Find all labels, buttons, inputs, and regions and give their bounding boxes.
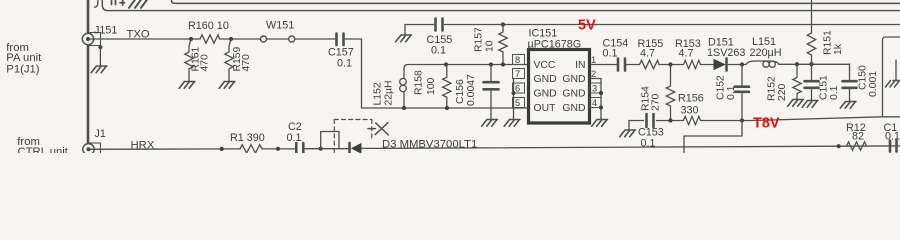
svg-text:8: 8 <box>515 55 520 65</box>
svg-text:220µH: 220µH <box>750 47 782 59</box>
svg-text:0.1: 0.1 <box>337 58 352 70</box>
svg-text:GND: GND <box>562 74 585 85</box>
ground R159 <box>219 82 235 89</box>
PA unit border line <box>87 0 90 144</box>
resistor R154 <box>666 65 674 121</box>
svg-text:10: 10 <box>485 40 496 52</box>
svg-text:P1(J1): P1(J1) <box>6 64 40 76</box>
capacitor C150 <box>849 64 851 101</box>
pin box 4 <box>590 98 602 108</box>
svg-text:IN: IN <box>575 60 585 71</box>
svg-text:C156: C156 <box>455 79 466 104</box>
mark X (not fitted) <box>368 123 388 135</box>
rail A (top horizontal line with corner stub) <box>172 0 900 3</box>
svg-text:0.1: 0.1 <box>726 85 737 100</box>
wire <box>626 64 639 66</box>
ground (partial, top-left) <box>129 0 148 8</box>
connector J1 <box>88 143 101 156</box>
svg-text:T8V: T8V <box>753 116 780 132</box>
capacitor C2 <box>296 143 303 153</box>
GND tie pins 7,6 <box>513 79 515 120</box>
resistor R158 <box>443 65 451 109</box>
wire <box>220 38 261 40</box>
resistor R159 <box>225 39 233 82</box>
svg-text:R151: R151 <box>823 30 834 55</box>
ground R152 <box>788 100 804 107</box>
resistor R160 <box>200 35 220 43</box>
capacitor C157 <box>337 34 344 46</box>
pin 2 wire <box>590 78 602 80</box>
svg-text:4: 4 <box>592 98 597 108</box>
svg-text:4.7: 4.7 <box>679 48 694 60</box>
svg-text:6: 6 <box>515 83 520 93</box>
capacitor C153 <box>647 114 654 127</box>
svg-text:7: 7 <box>515 69 520 79</box>
capacitor C156 <box>490 65 492 120</box>
svg-text:PA unit: PA unit <box>6 52 42 64</box>
pin box 3 <box>590 83 602 93</box>
svg-text:1: 1 <box>591 55 596 65</box>
resistor R157 <box>499 25 507 65</box>
VCC line to pin 8 <box>404 65 529 69</box>
resistor R153 <box>684 60 701 68</box>
svg-text:0.1: 0.1 <box>641 138 656 150</box>
svg-text:470: 470 <box>241 54 252 72</box>
node dot R157 top <box>501 22 505 26</box>
svg-text:GND: GND <box>562 103 585 114</box>
svg-text:R158: R158 <box>414 70 425 95</box>
OUT line (pin 5) <box>362 107 529 109</box>
svg-text:0.001: 0.001 <box>868 71 879 97</box>
5V line with ground at left <box>405 25 900 36</box>
wire <box>305 148 349 150</box>
svg-text:82: 82 <box>852 131 864 143</box>
svg-text:VCC: VCC <box>534 60 556 71</box>
svg-text:C151: C151 <box>819 75 830 100</box>
svg-text:HRX: HRX <box>131 140 155 152</box>
svg-text:3: 3 <box>592 83 597 93</box>
svg-text:0.1: 0.1 <box>287 132 302 144</box>
wire to right edge <box>362 146 900 149</box>
wire <box>701 64 714 66</box>
node dot 2 <box>229 37 233 41</box>
svg-text:D3 MMBV3700LT1: D3 MMBV3700LT1 <box>382 139 477 151</box>
svg-text:0.0047: 0.0047 <box>466 74 477 106</box>
ground J151 shell <box>98 45 102 49</box>
ground C150 <box>840 102 856 109</box>
svg-text:5V: 5V <box>578 18 596 34</box>
capacitor C155 <box>436 19 443 31</box>
svg-text:0.1: 0.1 <box>885 131 900 143</box>
svg-text:2: 2 <box>591 69 596 79</box>
svg-text:J151: J151 <box>94 25 117 37</box>
svg-text:22µH: 22µH <box>384 80 395 105</box>
jumper W151 <box>261 36 267 42</box>
svg-text:4.7: 4.7 <box>640 48 655 60</box>
svg-text:GND: GND <box>534 89 557 100</box>
svg-text:W151: W151 <box>266 20 294 32</box>
svg-text:0.1: 0.1 <box>603 48 618 60</box>
pin 1 wire <box>590 64 618 66</box>
svg-text:1k: 1k <box>833 43 844 55</box>
T8V line with ground at left <box>629 117 883 130</box>
wire T8V feed step <box>684 121 742 154</box>
svg-text:L152: L152 <box>373 82 384 105</box>
svg-text:GND: GND <box>562 89 585 100</box>
node dot 1 <box>189 37 193 41</box>
svg-text:R1 390: R1 390 <box>230 132 265 144</box>
ground C156 <box>482 120 498 127</box>
svg-text:CTRL unit: CTRL unit <box>18 146 69 153</box>
svg-text:C152: C152 <box>716 75 727 100</box>
svg-text:220: 220 <box>777 83 788 101</box>
block box right <box>883 37 900 117</box>
resistor R161 <box>185 39 193 82</box>
svg-text:TXO: TXO <box>127 29 150 41</box>
connector J151 <box>88 33 101 46</box>
capacitor C154 <box>618 59 625 71</box>
svg-text:R156: R156 <box>678 93 704 105</box>
wire <box>262 148 295 150</box>
inductor L152 <box>403 69 405 109</box>
pin box 7 <box>513 69 525 79</box>
ground C151 <box>802 101 818 108</box>
wire HRX <box>89 148 241 150</box>
diode D3 (varactor) <box>351 143 362 154</box>
wire hop <box>321 132 339 149</box>
svg-text:OUT: OUT <box>534 103 557 114</box>
svg-text:0.1: 0.1 <box>431 45 446 57</box>
capacitor C1 <box>890 141 897 152</box>
resistor R152 <box>793 64 801 99</box>
ground in block <box>895 60 897 80</box>
wire <box>779 63 850 65</box>
op-amp U1 IC151 body <box>529 50 590 124</box>
svg-text:R160 10: R160 10 <box>188 20 229 32</box>
pin box 8 <box>513 55 525 65</box>
svg-text:470: 470 <box>200 54 211 72</box>
pin box 5 <box>513 98 525 108</box>
wire TXO <box>88 38 200 40</box>
resistor R155 <box>640 60 660 68</box>
svg-text:270: 270 <box>651 93 662 111</box>
svg-text:C150: C150 <box>858 65 869 90</box>
wire <box>659 64 684 66</box>
resistor R156 <box>684 116 701 124</box>
diode D151 <box>714 59 726 71</box>
resistor R151 <box>807 0 815 64</box>
svg-text:1SV263: 1SV263 <box>707 47 745 59</box>
svg-text:J1: J1 <box>95 128 106 140</box>
resistor R1 <box>240 145 262 153</box>
wire <box>295 38 335 40</box>
cut-off component remnants top-left <box>95 0 98 7</box>
svg-text:100: 100 <box>426 77 437 95</box>
capacitor C151 <box>811 64 813 100</box>
rail B (second horizontal line, rounded corner at left) <box>102 0 900 11</box>
svg-text:R152: R152 <box>767 76 778 101</box>
pin box 6 <box>513 83 525 93</box>
svg-text:0.1: 0.1 <box>829 85 840 100</box>
resistor R12 <box>847 142 867 150</box>
dashed box D3 <box>334 120 372 154</box>
svg-text:GND: GND <box>534 74 557 85</box>
svg-text:µPC1678G: µPC1678G <box>528 39 582 51</box>
ground R161 <box>179 82 195 89</box>
wire to lower line <box>345 39 362 108</box>
svg-text:R157: R157 <box>474 27 485 52</box>
inductor L151 <box>746 61 779 64</box>
capacitor C152 <box>741 65 743 121</box>
svg-text:330: 330 <box>681 105 699 117</box>
svg-text:5: 5 <box>515 98 520 108</box>
GND tie pins 2,3,4 <box>600 79 602 120</box>
